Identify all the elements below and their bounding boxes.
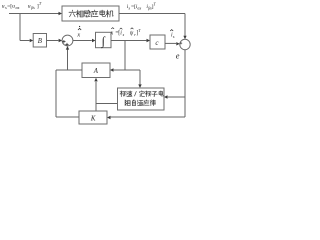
wire us input [9,13,59,15]
arrow up into summing junction bottom [66,46,69,50]
wire motor output to right [119,14,185,37]
arrow into K right [107,116,111,119]
svg-text:x: x [110,30,114,36]
block K [79,111,107,124]
svg-text:ψ: ψ [130,30,134,36]
svg-text:αs: αs [137,5,141,10]
wire junction to integrator [73,40,92,42]
wire integrator to C with branch [111,40,146,42]
label is = [ias ibs]T [127,2,157,11]
svg-text:∫: ∫ [101,34,106,48]
arrow into C [147,39,151,42]
block B [33,34,46,48]
svg-text:s: s [173,34,175,39]
summing junction right [180,39,190,49]
svg-text:T: T [154,2,157,7]
plus sign inside right junction [180,42,182,44]
svg-text:T: T [138,29,141,33]
wire A output to riser [56,70,82,117]
wire e down from right junction [184,50,186,117]
plus sign left [62,40,65,43]
block C [150,35,165,49]
arrow into summing junction [59,39,63,42]
svg-text:e: e [176,51,180,60]
svg-text:αs: αs [16,5,20,10]
block A [82,63,110,78]
label us = [uas ubs]T [2,1,42,10]
arrow into B [30,39,34,42]
arrow into integrator [92,39,96,42]
svg-text:βs: βs [30,5,35,10]
summing junction left [62,35,73,46]
wire C to right summing junction [165,42,176,44]
wire e bottom to K [111,116,185,118]
wire e branch into adaptive block [168,96,185,98]
plus sign bottom [65,43,68,46]
svg-text:x: x [76,31,80,38]
arrow into motor [59,12,63,15]
arrow down into adaptive block top [138,84,141,88]
riser up into summing junction [67,49,69,70]
wire branch down to B [20,14,30,41]
block integrator [96,32,112,47]
wire adaptive output to A bottom and K top [96,82,118,111]
block motor: six-phase induction motor [62,6,119,21]
branch xhat down to A and adaptive law [114,41,140,85]
arrow down into right summing junction [183,36,186,40]
arrow into right summing junction [176,42,180,45]
wire B to summing junction [47,40,59,42]
arrow into adaptive block right [164,95,168,98]
svg-text:K: K [90,116,96,123]
svg-text:B: B [38,38,42,45]
svg-text:s: s [123,32,125,37]
arrow up into A bottom [94,78,97,82]
label xhat = [ihat_s psihat_r]T [110,28,142,37]
svg-text:A: A [93,68,99,75]
svg-text:T: T [39,1,42,6]
arrow into A right [110,68,114,71]
block adaptive law: speed/stator-rotor resistance adaptive law [118,88,165,110]
